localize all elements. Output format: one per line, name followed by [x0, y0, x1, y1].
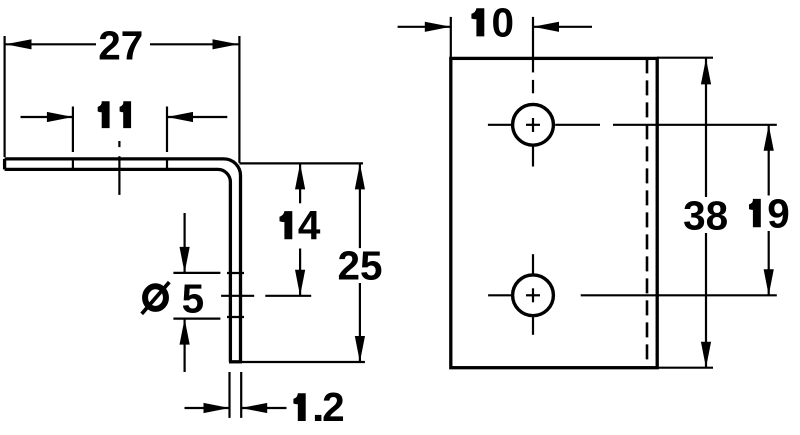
svg-text:38: 38	[683, 193, 728, 239]
svg-text:9: 9	[767, 190, 790, 236]
svg-text:5: 5	[182, 275, 205, 321]
svg-text:0: 0	[492, 0, 515, 45]
svg-text:27: 27	[98, 23, 143, 69]
svg-text:2: 2	[322, 384, 345, 430]
svg-text:25: 25	[338, 243, 383, 289]
svg-text:4: 4	[298, 202, 321, 248]
